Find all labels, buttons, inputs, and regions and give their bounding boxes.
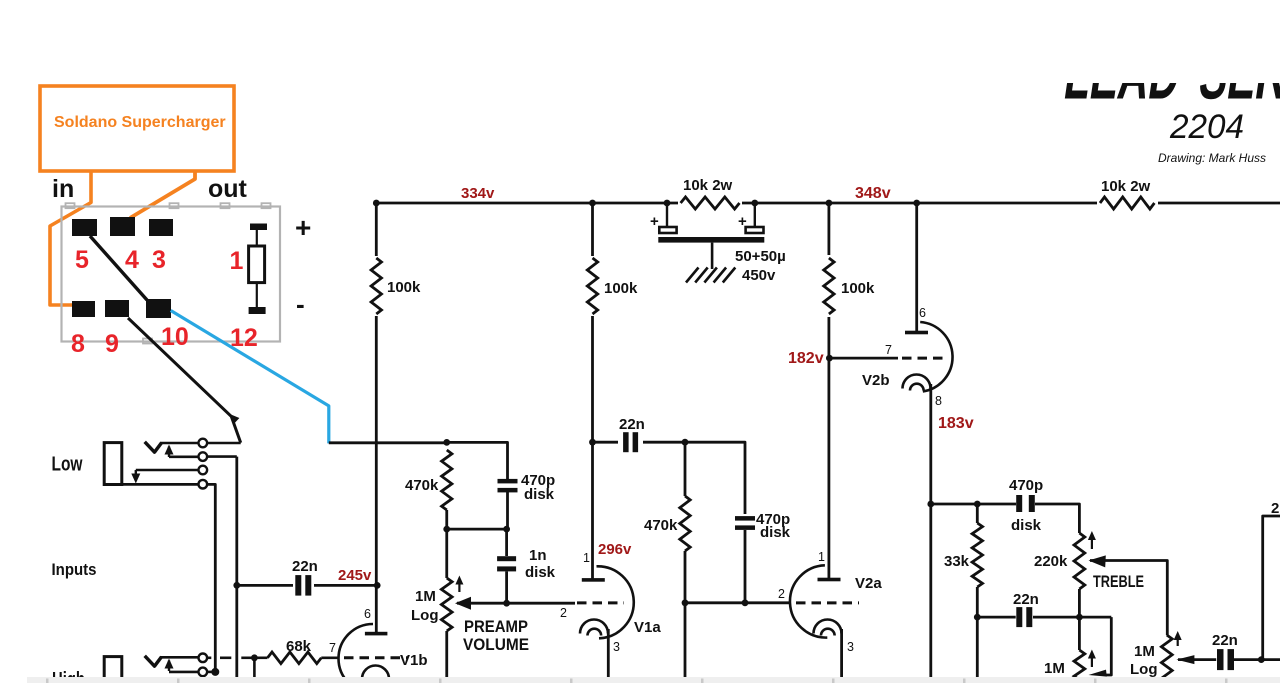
junction 33k bottom [974, 614, 981, 621]
black wire: relay pin 5 to pin 10 [90, 236, 147, 300]
preamp pot wiper arrow [455, 597, 471, 610]
svg-text:22n: 22n [1212, 632, 1238, 649]
filter cap common bar [658, 237, 764, 243]
svg-text:245v: 245v [338, 567, 372, 584]
coupling cap 22n V1b [293, 573, 314, 598]
svg-text:1: 1 [583, 551, 590, 565]
high jack tip spring [145, 656, 162, 666]
resistor 33k [976, 504, 979, 523]
low jack tip spring [145, 442, 162, 452]
potentiometer 1M middle [1078, 617, 1081, 650]
svg-text:Log: Log [1130, 661, 1158, 678]
svg-text:1: 1 [818, 550, 825, 564]
svg-text:6: 6 [364, 607, 371, 621]
resistor 470k input [442, 450, 452, 510]
low jack down arrow [135, 470, 137, 477]
filter cap ground stem [711, 243, 714, 269]
svg-text:PREAMP: PREAMP [464, 617, 528, 636]
capacitor 470p disk 2 [735, 516, 755, 521]
svg-text:Inputs: Inputs [52, 561, 97, 579]
svg-text:Low: Low [52, 454, 83, 476]
treble wiper wire [1090, 561, 1167, 636]
relay pin 9 pad [105, 300, 129, 317]
svg-text:33k: 33k [944, 553, 970, 570]
orange wire: box to relay pin 4 (out side) [130, 171, 195, 218]
gray strip (cropped row) [27, 677, 1280, 683]
wire high tip junction to 68k [254, 656, 267, 659]
V2a plate [818, 578, 841, 582]
junction row 529 [443, 526, 450, 533]
svg-text:470p: 470p [1009, 477, 1043, 494]
svg-text:V2a: V2a [855, 575, 882, 592]
preamp pot wiper wire [457, 602, 575, 605]
wire 22n interstage [593, 441, 686, 444]
potentiometer 220k treble [1074, 533, 1085, 589]
rail junction filter cap right [751, 200, 758, 207]
svg-text:68k: 68k [286, 638, 312, 655]
relay socket outline [62, 207, 281, 342]
svg-text:3: 3 [152, 246, 166, 274]
svg-text:470k: 470k [644, 517, 678, 534]
low jack ring contact [199, 452, 208, 461]
svg-text:disk: disk [525, 564, 556, 581]
relay coil pin 1 element [250, 224, 267, 231]
low jack contact2 wire [207, 455, 237, 458]
V2b grid wire [829, 357, 898, 360]
black wire: relay pin 9 to low jack switch [128, 318, 241, 443]
triode V1a envelope [597, 566, 634, 638]
volume pot up arrow [1177, 637, 1179, 646]
svg-text:5: 5 [75, 246, 89, 274]
wire rail to V1b plate [375, 203, 378, 633]
V2a grid wire [685, 601, 790, 604]
junction tone stack top [927, 501, 934, 508]
wire output up to edge [1263, 516, 1280, 660]
mid pot wiper arrow [1089, 670, 1107, 677]
svg-text:183v: 183v [938, 415, 974, 432]
rail junction V2a dropper [826, 200, 833, 207]
junction 470k2 bottom [682, 599, 689, 606]
V2a cathode [814, 620, 842, 634]
triode V2b envelope [920, 322, 952, 392]
high jack tip wire [160, 656, 199, 659]
V1b cathode [362, 666, 389, 680]
svg-text:V2b: V2b [862, 372, 890, 389]
low jack ring arrow [168, 447, 170, 458]
coupling cap 22n V1b wire [237, 584, 377, 587]
V2b grid dashes [902, 357, 948, 360]
svg-text:2: 2 [560, 606, 567, 620]
wire rail to V1a plate [591, 203, 594, 579]
filter cap plates [659, 227, 676, 233]
V1a plate [582, 578, 605, 582]
low jack tip to switch wire [207, 442, 241, 445]
triode V1b envelope [339, 624, 374, 683]
resistor 100k V2a plate [820, 255, 837, 317]
orange wire: box to relay pin 8 (in side) [50, 171, 91, 305]
low sleeve to high sleeve wire [207, 484, 215, 672]
junction 1n bottom [503, 600, 510, 607]
junction 470p2 bottom [742, 599, 749, 606]
svg-text:100k: 100k [387, 279, 421, 296]
svg-text:100k: 100k [604, 280, 638, 297]
svg-text:1n: 1n [529, 547, 547, 564]
V1b grid dashes [344, 656, 408, 659]
junction 470k top [443, 439, 450, 446]
capacitor 22n output [1217, 649, 1224, 670]
svg-text:2: 2 [1271, 500, 1279, 517]
resistor 100k V1b plate [368, 256, 385, 316]
svg-text:296v: 296v [598, 541, 632, 558]
wire junction row [447, 528, 508, 531]
V2b cathode lead [929, 384, 932, 677]
wire 68k to V1b grid [321, 656, 338, 659]
svg-text:1M: 1M [415, 588, 436, 605]
svg-text:V1a: V1a [634, 619, 661, 636]
wire rail to V2b plate [915, 203, 918, 331]
V1a cathode lead [607, 629, 610, 677]
wire volume wiper to 22n out [1178, 658, 1216, 661]
svg-text:7: 7 [885, 343, 892, 357]
wire to 470p-2 [685, 442, 745, 514]
rail junction node V1b [373, 200, 380, 207]
junction dot at 245v tee [233, 582, 240, 589]
wire 470k bottom [445, 510, 448, 529]
V2b cathode [903, 375, 931, 389]
ground symbol [686, 268, 699, 283]
high jack ring contact [199, 668, 208, 677]
svg-text:2: 2 [778, 587, 785, 601]
high jack ring to bus wire [207, 671, 215, 674]
capacitor 470p treble [1016, 495, 1022, 512]
V1a cathode [580, 620, 608, 634]
wire low jack to 22n junction vertical [235, 457, 238, 677]
low jack contact3 [199, 466, 208, 475]
svg-text:10: 10 [161, 323, 189, 351]
rail junction V2b plate [913, 200, 920, 207]
triode V2a envelope [790, 565, 827, 637]
resistor 68k [268, 652, 322, 664]
wire 22n out to edge [1234, 658, 1280, 661]
svg-text:Soldano Supercharger: Soldano Supercharger [54, 114, 226, 131]
svg-text:7: 7 [329, 641, 336, 655]
svg-text:-: - [296, 289, 305, 319]
low jack tip contact [199, 439, 208, 448]
volume wiper arrow [1176, 655, 1194, 664]
ground bus junction [211, 668, 219, 676]
mid pot up arrow [1091, 656, 1093, 668]
svg-text:450v: 450v [742, 267, 776, 284]
svg-text:10k 2w: 10k 2w [683, 177, 733, 194]
node 245v [374, 582, 381, 589]
low jack tip wire [160, 442, 199, 445]
tone stack top wire [931, 503, 1016, 506]
V1a grid dashes [577, 601, 624, 604]
low jack ring wire [169, 455, 199, 458]
Soldano Supercharger overlay box [40, 86, 234, 171]
capacitor 22n interstage [618, 430, 643, 455]
wire 470k-top to 470p-disk [447, 442, 508, 479]
svg-text:Log: Log [411, 607, 439, 624]
low jack sleeve contact [199, 480, 208, 489]
junction 470k-2 top [682, 439, 689, 446]
svg-text:disk: disk [1011, 517, 1042, 534]
resistor 470k grid2 [684, 442, 687, 496]
relay pin 8 pad [72, 301, 95, 317]
rail junction filter cap left [664, 200, 671, 207]
svg-text:10k 2w: 10k 2w [1101, 178, 1151, 195]
relay pin 5 pad [72, 219, 97, 236]
potentiometer 1M Log master volume [1161, 635, 1172, 683]
svg-text:470k: 470k [405, 477, 439, 494]
filter cap 50+50u leads [666, 203, 668, 228]
svg-text:in: in [52, 175, 74, 203]
wire 470p to 529 junction [506, 492, 509, 529]
capacitor 470p disk input [498, 479, 518, 484]
capacitor 22n tone [1016, 607, 1022, 627]
V2a grid dashes [796, 601, 859, 604]
low jack contact3 wire [136, 469, 199, 472]
svg-text:22n: 22n [292, 558, 318, 575]
svg-text:3: 3 [613, 640, 620, 654]
stub below high tip junction [253, 658, 256, 677]
svg-text:disk: disk [760, 524, 791, 541]
svg-text:+: + [650, 213, 659, 230]
junction output [1258, 656, 1265, 663]
capacitor 1n disk [505, 529, 508, 556]
title LEAD SERIES (clipped) [1060, 33, 1280, 114]
svg-text:1M: 1M [1044, 660, 1065, 677]
low jack sleeve wire [104, 483, 198, 486]
grid-network wire from blue to 470k [329, 441, 447, 444]
V1b plate [365, 632, 388, 636]
preamp pot up arrow [458, 582, 460, 593]
high jack body [104, 657, 122, 683]
svg-text:334v: 334v [461, 185, 495, 202]
svg-text:TREBLE: TREBLE [1093, 572, 1144, 591]
svg-text:1M: 1M [1134, 643, 1155, 660]
potentiometer 1M Log preamp volume [445, 529, 448, 578]
svg-text:1: 1 [230, 247, 244, 275]
resistor 100k V1a plate [584, 256, 601, 316]
junction middle pot top [1076, 614, 1083, 621]
treble wiper arrow [1089, 555, 1106, 567]
high jack ring wire [169, 671, 199, 674]
svg-text:182v: 182v [788, 350, 824, 367]
junction 33k top [974, 501, 981, 508]
high jack tip contact [199, 654, 208, 663]
junction high tip [251, 654, 258, 661]
relay pin 4 pad [110, 217, 135, 236]
svg-text:4: 4 [125, 246, 139, 274]
resistor 10k 2w (left) [678, 193, 742, 213]
junction V1a plate node [589, 439, 596, 446]
resistor 10k 2w (right) [1097, 193, 1158, 213]
svg-text:220k: 220k [1034, 553, 1068, 570]
low jack body [104, 443, 122, 485]
relay socket tabs [66, 203, 75, 208]
blue wire: relay pin 10 to grid network [171, 311, 329, 444]
junction 182v [826, 355, 833, 362]
svg-text:out: out [208, 175, 248, 203]
svg-text:22n: 22n [1013, 591, 1039, 608]
high jack ring arrow [168, 661, 170, 672]
svg-text:VOLUME: VOLUME [463, 635, 529, 654]
relay pin 3 pad [149, 219, 173, 236]
V2a cathode lead [840, 629, 843, 677]
svg-text:3: 3 [847, 640, 854, 654]
relay pin 10 pad [146, 299, 171, 318]
svg-text:100k: 100k [841, 280, 875, 297]
high tip wire segments crossing bus [207, 656, 211, 659]
rail junction node V1a [589, 200, 596, 207]
wire 22n slope [977, 616, 1015, 619]
wire rail to V2a plate [828, 203, 831, 579]
svg-text:6: 6 [919, 306, 926, 320]
svg-text:2204: 2204 [1169, 108, 1244, 146]
B+ rail wire [376, 202, 1280, 205]
svg-text:50+50µ: 50+50µ [735, 248, 786, 265]
V2b plate [905, 331, 928, 335]
svg-text:+: + [295, 212, 311, 243]
svg-text:disk: disk [524, 486, 555, 503]
wire mid wiper loop [1106, 617, 1111, 675]
svg-text:Drawing: Mark Huss: Drawing: Mark Huss [1158, 151, 1266, 165]
treble pot up arrow [1091, 537, 1093, 549]
svg-text:9: 9 [105, 330, 119, 358]
svg-text:8: 8 [71, 330, 85, 358]
svg-text:8: 8 [935, 394, 942, 408]
svg-text:22n: 22n [619, 416, 645, 433]
svg-text:348v: 348v [855, 185, 891, 202]
svg-text:V1b: V1b [400, 652, 428, 669]
